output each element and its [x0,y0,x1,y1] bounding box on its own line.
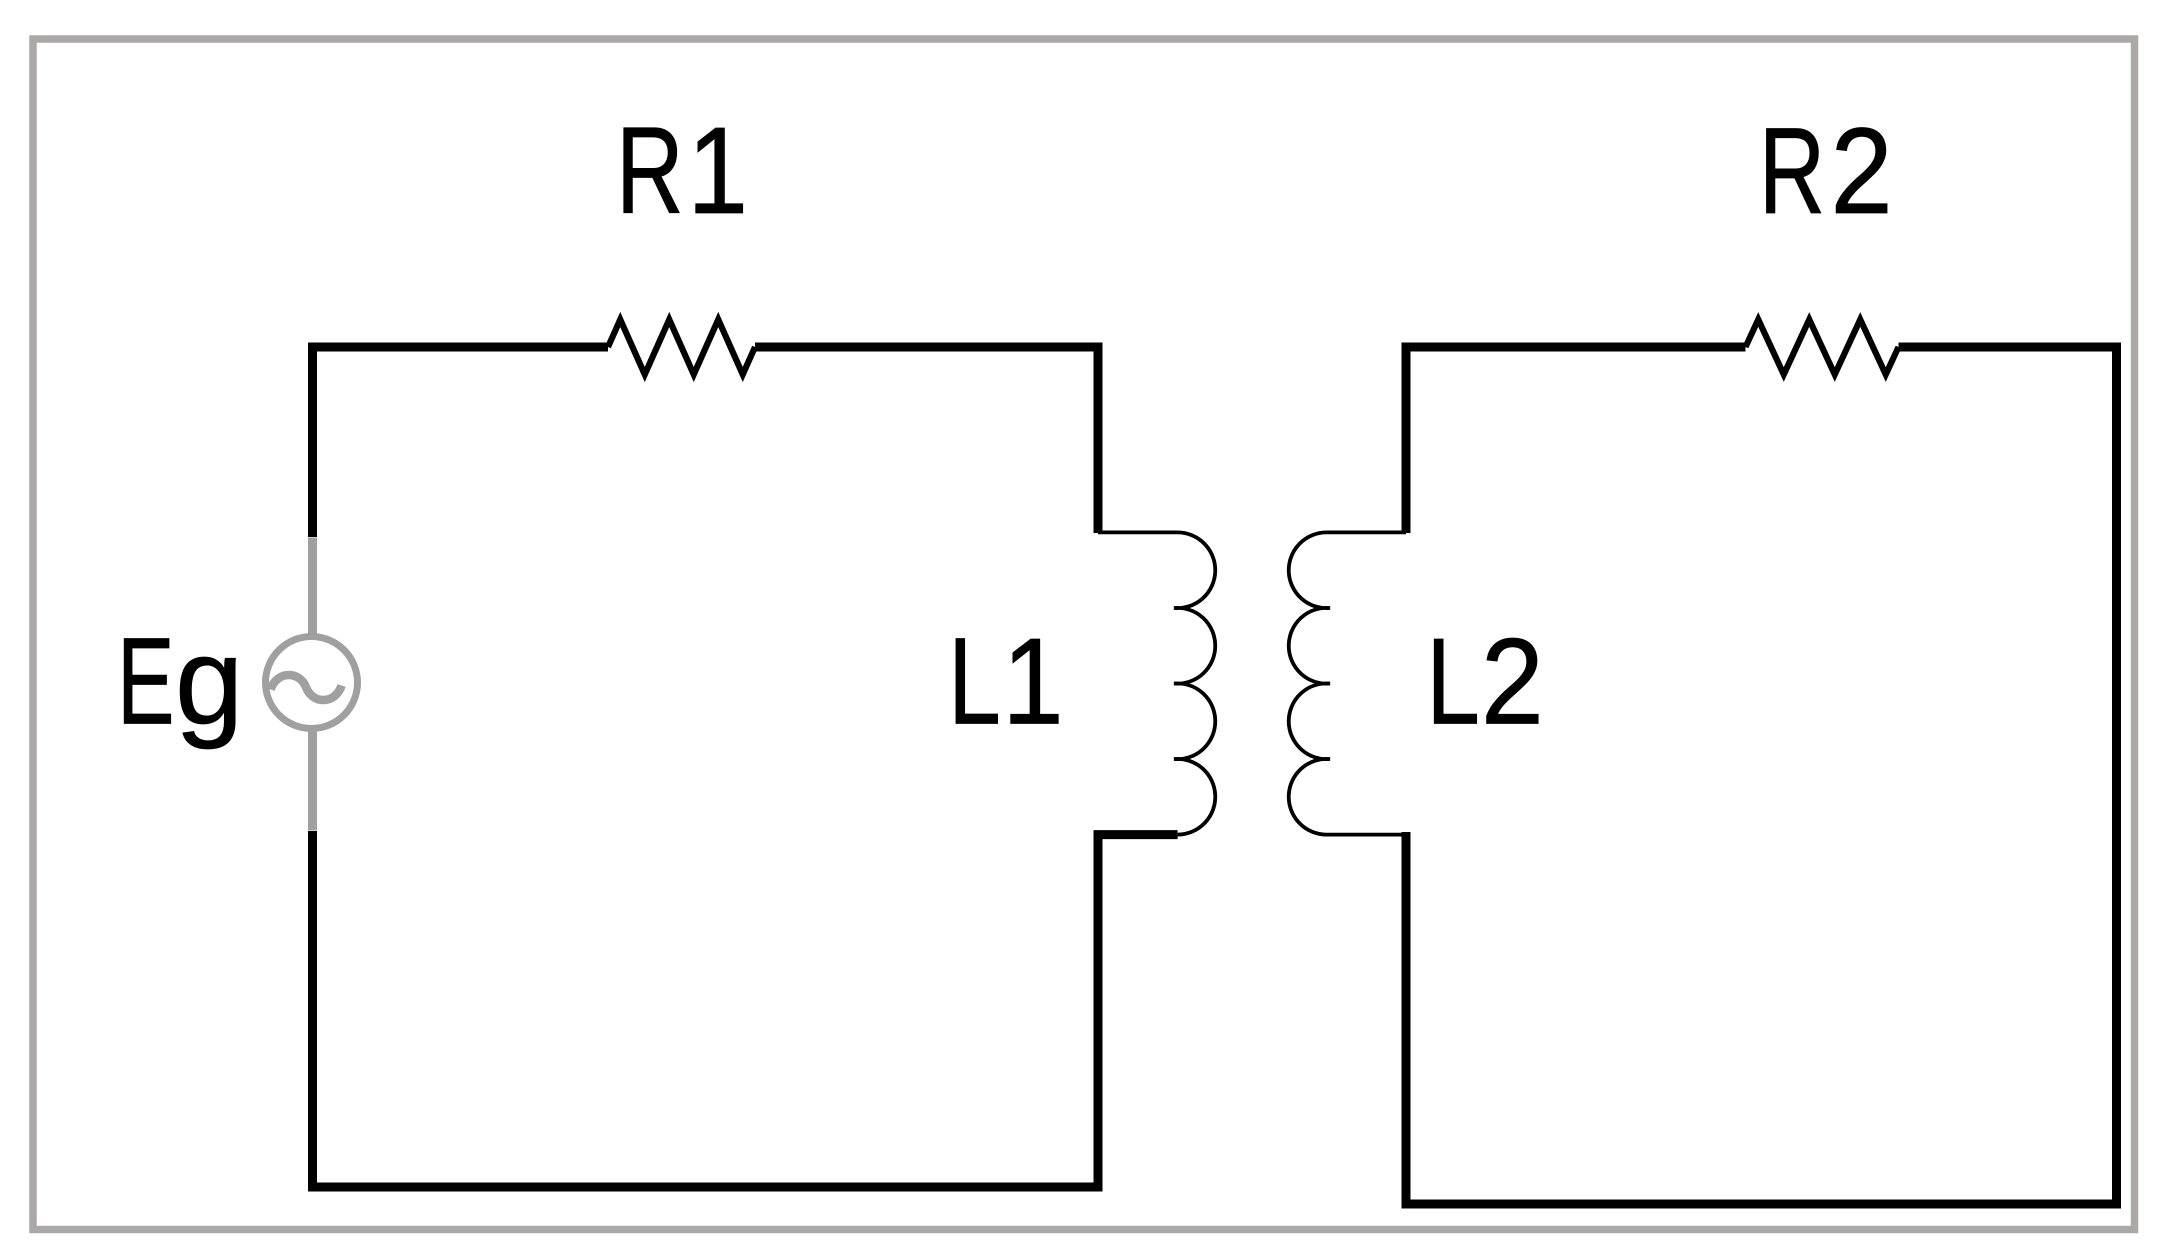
svg-text:E: E [117,612,175,750]
svg-text:2: 2 [1830,102,1892,239]
svg-text:1: 1 [687,102,748,240]
wire [1406,347,2117,1204]
Eg label [117,612,243,750]
wire [1406,347,1746,533]
resistor R1 [608,320,755,375]
wire [755,347,1098,533]
svg-text:g: g [175,614,243,751]
svg-text:2: 2 [1481,613,1544,750]
L2 label [1426,613,1544,750]
svg-text:L: L [1426,613,1480,750]
inductor L1 [1098,532,1215,834]
R1 label [616,102,748,240]
L1 label [948,612,1064,750]
svg-text:R: R [616,103,684,240]
resistor R2 [1746,320,1899,375]
wire [313,831,1178,1187]
R2 label [1759,102,1893,240]
ac source Eg [266,538,358,831]
svg-text:1: 1 [1002,612,1063,750]
wire [313,347,609,537]
svg-text:L: L [948,614,1001,751]
inductor L2 [1289,532,1406,834]
svg-text:R: R [1759,103,1825,240]
